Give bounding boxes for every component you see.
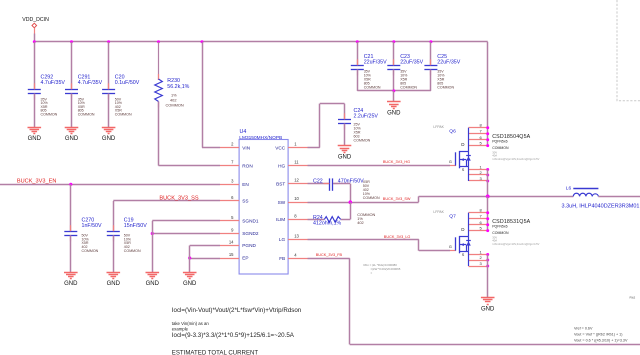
wire C292 to gnd [34,94,36,128]
wire C24 top lead [344,104,346,120]
svg-text:9: 9 [231,228,234,233]
svg-text:GND: GND [28,136,42,142]
junction Q6 pin [486,168,489,171]
svg-text:Rb2: Rb2 [630,295,636,299]
ground [183,273,197,287]
junction on VDD bus [392,40,395,43]
junction on VDD bus [356,40,359,43]
svg-text:1: 1 [480,165,483,170]
svg-text:22uF/35V: 22uF/35V [364,59,387,65]
svg-text:Q7: Q7 [449,214,456,220]
wire C24 to gnd [344,124,346,146]
note estimated current [172,349,259,355]
junction Q6 pin [486,126,489,129]
wire C25 to rail [430,70,432,91]
svg-text:LFPAK: LFPAK [433,125,444,129]
svg-text:5: 5 [480,226,483,231]
note rbn [364,263,401,275]
svg-text:COMMON: COMMON [78,112,95,116]
svg-text:6: 6 [231,195,234,200]
junction Q6 pin [486,180,489,183]
svg-text:4.7uF/35V: 4.7uF/35V [78,80,103,86]
svg-text:4.7uF/35V: 4.7uF/35V [41,80,66,86]
wire EN to C270 [70,184,72,231]
ground [146,273,160,287]
transistor Q7 CSD18531Q5A [433,208,539,267]
wire C19 to gnd [113,235,115,272]
svg-text:ILIM: ILIM [276,217,285,222]
wire Q6 source to SW [487,170,489,197]
junction Q7 pin [486,259,489,262]
wire cap group rail [357,90,431,92]
svg-text:COMMON: COMMON [41,112,58,116]
wire C23 to rail [393,70,395,91]
net label BUCK_3V3_LG [384,235,411,239]
junction Q7 pin [486,211,489,214]
svg-text:14: 14 [229,240,234,245]
wire FB [308,258,640,344]
junction Q7 pin [486,217,489,220]
svg-text:VIN: VIN [242,145,250,150]
ground [107,273,121,287]
junction on VDD bus [70,40,73,43]
wire PGND to gnd [189,246,191,273]
svg-text:GND: GND [102,136,116,142]
capacitor C291 [65,75,103,117]
wire to C20 [108,42,110,90]
wire EP [190,258,220,260]
svg-text:15: 15 [229,252,234,257]
svg-text:22uF/35V: 22uF/35V [437,59,460,65]
junction on VDD bus [201,40,204,43]
wire PGND [190,245,220,247]
svg-text:15nF/50V: 15nF/50V [124,223,147,229]
wire SW [308,196,574,202]
svg-text:COMMON: COMMON [437,86,454,90]
svg-text:FB: FB [279,256,285,261]
svg-text:G: G [449,245,452,249]
svg-text:PQFN5x6: PQFN5x6 [492,225,507,229]
capacitor C21 [351,54,387,90]
svg-text:COMMON: COMMON [492,231,509,235]
svg-text:COMMON: COMMON [400,86,417,90]
junction Q6 pin [486,144,489,147]
svg-text:Vref = 0.6V: Vref = 0.6V [574,327,593,331]
wire bus to C25 [430,42,432,66]
svg-text:GND: GND [65,136,79,142]
svg-text:BUCK_3V3_SS: BUCK_3V3_SS [159,195,198,201]
svg-text:2: 2 [480,255,483,260]
svg-text:RON: RON [242,163,252,168]
svg-text:40A: 40A [492,154,497,158]
svg-text:3.3uH, IHLP4040DZER3R3M01: 3.3uH, IHLP4040DZER3R3M01 [562,204,640,210]
svg-text:BUCK_3V3_SW: BUCK_3V3_SW [383,197,411,201]
svg-text:GND: GND [338,155,352,161]
svg-text:11: 11 [294,160,299,165]
svg-text:4: 4 [294,252,297,257]
svg-text:5: 5 [480,141,483,146]
svg-text:402: 402 [357,220,364,225]
svg-text:1: 1 [480,250,483,255]
svg-text:EN: EN [242,182,249,187]
wire C270 to gnd [70,235,72,272]
svg-text:22uF/35V: 22uF/35V [400,59,423,65]
svg-text:GND: GND [107,281,121,287]
svg-text:5: 5 [231,215,234,220]
svg-text:2: 2 [231,142,234,147]
svg-text:COMMON: COMMON [354,138,371,142]
wire R230 to RON [159,102,221,166]
net label BUCK_3V3_FB [316,253,343,257]
svg-text:Iocl=(Vin-Vout)*Vout/(2*L*fsw*: Iocl=(Vin-Vout)*Vout/(2*L*fsw*Vin)+Vtrip… [172,307,302,314]
junction Q6 pin [486,132,489,135]
svg-text:L6: L6 [566,185,572,191]
transistor Q6 CSD18504Q5A [433,123,539,181]
svg-text:12: 12 [294,178,299,183]
port VDD_DCIN [22,17,49,42]
svg-text:U4: U4 [240,129,247,135]
svg-text:40A: 40A [492,239,497,243]
svg-text:G: G [449,160,452,164]
svg-text:Q6: Q6 [449,129,456,135]
svg-text:=: = [371,271,373,275]
capacitor C24 [338,108,378,142]
capacitor C23 [387,54,423,90]
wire bus to C23 [393,42,395,66]
resistor R230 [155,78,190,107]
wire R24 to SW node [341,202,351,219]
svg-text:BUCK_3V3_HG: BUCK_3V3_HG [383,160,410,164]
wire L6 output [598,196,640,198]
svg-text:COMMON: COMMON [124,249,141,253]
net label BUCK_3V3_SS [159,195,198,201]
op-amp U4 LM3150MHX/NOPB [220,129,308,274]
wire bus to R230 [158,42,160,80]
wire C22 to SW node [333,184,351,203]
svg-text:SS: SS [242,199,248,204]
svg-text:GND: GND [481,306,495,312]
svg-text:D: D [461,142,465,147]
wire BST to C22 [308,183,330,185]
junction Q7 pin [486,253,489,256]
note vout formula [574,327,628,343]
net label BUCK_3V3_SW [383,197,411,201]
wire C291 to gnd [71,94,73,128]
svg-text:10: 10 [294,196,299,201]
svg-text:1: 1 [294,142,297,147]
ground [481,298,495,313]
wire SGND2 [152,233,220,235]
junction on VDD bus [157,40,160,43]
junction rail/gnd [392,89,395,92]
junction on VDD bus [107,40,110,43]
junction Q7 pin [486,265,489,268]
ground [65,128,79,143]
svg-text:BUCK_3V3_EN: BUCK_3V3_EN [17,178,57,184]
svg-text:=(kW *0.002)/0.000065: =(kW *0.002)/0.000065 [371,267,401,271]
ground [387,102,401,117]
svg-text:SW: SW [278,200,286,205]
wire to C291 [71,42,73,90]
svg-text:BUCK_3V3_LG: BUCK_3V3_LG [384,235,411,239]
svg-text:GND: GND [183,281,197,287]
wire Q7 source to gnd [487,255,489,298]
svg-text:COMMON: COMMON [492,146,509,150]
svg-text:ESTIMATED TOTAL CURRENT: ESTIMATED TOTAL CURRENT [172,349,259,355]
junction Q7 pin [486,223,489,226]
svg-text:Iocl=(9-3.3)*3.3/(2*1*0.5*9)+1: Iocl=(9-3.3)*3.3/(2*1*0.5*9)+125/6.1=~20… [172,332,295,339]
svg-text:COMMON: COMMON [115,112,132,116]
svg-text:3: 3 [231,178,234,183]
svg-text:D: D [461,227,465,232]
wire C20 to gnd [108,94,110,128]
svg-text:GND: GND [387,111,401,117]
wire VCC to C24 [308,104,345,148]
capacitor C19 [107,217,147,253]
svg-text:example: example [172,326,189,331]
svg-text:VCC: VCC [275,145,286,150]
junction on VDD bus [429,40,432,43]
svg-text:LG: LG [279,237,286,242]
svg-text:COMMON: COMMON [363,196,380,200]
wire VDD bus drop to Q6 drain [487,42,489,146]
wire LG to Q7 gate [308,239,456,250]
svg-text:S: S [462,168,465,172]
junction Q6 pin [486,174,489,177]
svg-text:8: 8 [294,213,297,218]
svg-text:C22: C22 [313,178,323,184]
svg-text:COMMON: COMMON [166,102,184,107]
capacitor C270 [64,217,102,253]
svg-text:COMMON: COMMON [364,86,381,90]
ground [28,128,42,143]
svg-text:COMMON: COMMON [82,249,99,253]
svg-text:SGND1: SGND1 [242,219,259,224]
junction Q6 pin [486,138,489,141]
junction on VDD bus [33,40,36,43]
svg-text:PGND: PGND [242,243,256,248]
junction SGND [151,232,154,235]
wire C21 to rail [357,70,359,91]
svg-text:Vout = 0.6 * ((45.3/10) + 1)=3: Vout = 0.6 * ((45.3/10) + 1)=3.3V [574,339,628,343]
junction SW node [486,195,490,199]
net label BUCK_3V3_HG [383,160,410,164]
svg-text:S: S [462,253,465,257]
inductor L6 [562,185,640,209]
svg-text:EP: EP [242,256,248,261]
wire SGND to gnd [152,221,154,272]
svg-text:7: 7 [231,160,234,165]
svg-text:SGND2: SGND2 [242,231,259,236]
net label BUCK_3V3_EN [17,178,57,184]
capacitor C292 [28,75,66,117]
svg-text:GND: GND [146,281,160,287]
svg-text:0.1uF/50V: 0.1uF/50V [115,80,140,86]
resistor R24 [313,212,376,227]
junction EN/C270 [69,183,72,186]
wire SW to Q7 drain [487,196,489,230]
svg-text:BUCK_3V3_FB: BUCK_3V3_FB [316,253,343,257]
svg-text:VDD_DCIN: VDD_DCIN [22,17,49,23]
capacitor C20 [102,75,140,117]
capacitor C22 [313,178,380,200]
svg-text:1nF/50V: 1nF/50V [82,223,102,229]
svg-text:1.8mohm@Vgs=10V,4mohm@Vgs=4.5V: 1.8mohm@Vgs=10V,4mohm@Vgs=4.5V [492,157,539,161]
note ocp formula [172,307,302,339]
svg-text:3: 3 [480,261,483,266]
wire rail to gnd [393,91,395,102]
svg-text:GND: GND [64,281,78,287]
capacitor C25 [424,54,460,90]
wire to C292 [34,42,36,90]
svg-text:LM3150MHX/NOPB: LM3150MHX/NOPB [239,135,282,141]
wire ILIM to R24 [308,219,325,221]
svg-text:Vout = Vref * ((Rb2 /Rb1) + 1): Vout = Vref * ((Rb2 /Rb1) + 1) [574,333,622,337]
svg-text:13: 13 [294,233,299,238]
node Rb2 [630,295,636,299]
ground [102,128,116,143]
wire SS [113,201,220,232]
wire SGND1 [152,220,220,222]
junction Q7 pin [486,229,489,232]
wire bus to VIN [202,42,220,148]
wire bus to C21 [357,42,359,66]
svg-text:PQFN5x6: PQFN5x6 [492,140,507,144]
wire VDD bus [34,41,487,43]
svg-text:412ohm,1%: 412ohm,1% [313,221,342,227]
ground [64,273,78,287]
svg-text:56.2k,1%: 56.2k,1% [167,84,189,90]
junction PGND/EP [188,256,191,259]
ground [338,146,352,161]
svg-text:BST: BST [276,181,285,186]
svg-text:2.2uF/25V: 2.2uF/25V [354,113,379,119]
svg-text:1.8mohm@Vgs=10V,4mohm@Vgs=4.5V: 1.8mohm@Vgs=10V,4mohm@Vgs=4.5V [492,242,539,246]
junction SW/C22/R24 [349,200,353,204]
wire BUCK_3V3_EN [0,184,220,186]
svg-text:LFPAK: LFPAK [433,210,444,214]
svg-text:HG: HG [278,163,285,168]
note box (dashed border) [617,0,640,101]
wire HG to Q6 gate [308,165,456,167]
